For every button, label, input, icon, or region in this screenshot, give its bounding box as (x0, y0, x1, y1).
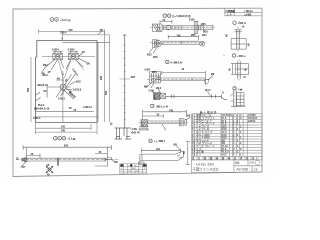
svg-text:Ø27: Ø27 (131, 76, 136, 79)
svg-text:545: 545 (61, 130, 66, 133)
svg-text:図番: 図番 (235, 161, 240, 165)
svg-text:220.4: 220.4 (60, 32, 67, 35)
svg-text:t9: t9 (244, 76, 247, 79)
svg-text:Ø25: Ø25 (152, 71, 157, 74)
svg-text:√40X ω: √40X ω (237, 55, 245, 58)
svg-text:印: 印 (252, 156, 255, 160)
svg-text:千葉ウインチ(仕): 千葉ウインチ(仕) (193, 166, 219, 171)
svg-text:乙48: 乙48 (249, 161, 255, 165)
svg-text:Ø45: Ø45 (153, 56, 158, 59)
svg-text:25: 25 (47, 164, 50, 167)
svg-text:承: 承 (240, 156, 243, 160)
svg-text:Ø25: Ø25 (201, 23, 206, 26)
svg-text:2-Ø13.8: 2-Ø13.8 (71, 68, 79, 77)
svg-text:Ø4.2: Ø4.2 (205, 89, 211, 92)
svg-text:ピン: ピン (196, 153, 202, 157)
svg-text:Ø8(±0.1)ℓ: Ø8(±0.1)ℓ (38, 84, 49, 87)
svg-text:25: 25 (16, 157, 19, 160)
svg-text:9: 9 (223, 92, 225, 95)
svg-text:認: 認 (246, 156, 249, 160)
svg-text:45°: 45° (22, 166, 26, 169)
svg-text:√400 ㎜: √400 ㎜ (60, 18, 71, 22)
svg-text:審: 審 (227, 156, 231, 160)
svg-text:⊂2485: ⊂2485 (244, 13, 252, 16)
svg-text:Ø4.2: Ø4.2 (156, 87, 162, 90)
svg-text:TN: TN (143, 165, 146, 167)
svg-text:図: 図 (222, 156, 225, 160)
svg-text:M8: M8 (144, 86, 148, 89)
svg-text:穴明図番: 穴明図番 (225, 9, 235, 13)
svg-text:検: 検 (216, 156, 219, 160)
svg-text:乙B: 乙B (254, 167, 258, 171)
svg-text:計: 計 (198, 156, 201, 160)
svg-text:45°: 45° (42, 72, 46, 75)
svg-text:Ø9: Ø9 (211, 73, 215, 76)
svg-text:842: 842 (64, 145, 69, 148)
svg-text:594: 594 (105, 90, 108, 95)
svg-text:40: 40 (245, 68, 248, 71)
svg-text:√1.1 ㎜: √1.1 ㎜ (68, 138, 76, 141)
svg-text:2-Ø24: 2-Ø24 (52, 48, 59, 51)
svg-text:2-Ø9: 2-Ø9 (149, 90, 155, 93)
svg-text:▲B: ▲B (120, 164, 124, 167)
svg-text:292: 292 (100, 75, 103, 80)
svg-text:⑫: ⑫ (110, 122, 113, 126)
svg-text:1 : 4: 1 : 4 (227, 13, 232, 16)
svg-text:594: 594 (27, 87, 30, 92)
svg-text:Ø8: Ø8 (87, 63, 91, 66)
svg-text:査: 査 (234, 156, 237, 160)
svg-text:45°: 45° (100, 29, 104, 32)
svg-text:45°: 45° (64, 78, 69, 83)
svg-text:√M8 (ノ) 4ℓ: √M8 (ノ) 4ℓ (156, 105, 169, 108)
svg-text:2-Ø13: 2-Ø13 (58, 98, 65, 101)
svg-text:6-√M8 3.4ℓ: 6-√M8 3.4ℓ (171, 62, 184, 65)
svg-text:Ø18: Ø18 (203, 30, 208, 33)
svg-text:40: 40 (137, 131, 140, 134)
svg-text:Ø24: Ø24 (43, 64, 48, 67)
svg-text:ノ1814ω: ノ1814ω (243, 10, 253, 13)
svg-text:2: 2 (144, 168, 146, 170)
svg-text:√ (ノM8) 4: √ (ノM8) 4 (154, 140, 166, 143)
svg-text:R2: R2 (44, 90, 48, 93)
svg-text:√ ㎜: √ ㎜ (238, 88, 243, 91)
svg-text:342: 342 (61, 126, 66, 129)
svg-text:152: 152 (156, 148, 161, 151)
svg-text:4: 4 (223, 55, 225, 57)
svg-text:2-Ø9.4: 2-Ø9.4 (33, 117, 41, 120)
svg-text:Ø42: Ø42 (132, 132, 137, 135)
svg-text:45: 45 (248, 43, 251, 46)
svg-text:745: 745 (177, 34, 182, 37)
svg-text:■2503: ■2503 (248, 119, 256, 123)
svg-text:40: 40 (228, 68, 231, 71)
svg-text:Ø13: Ø13 (222, 153, 227, 157)
svg-text:Ø18: Ø18 (76, 81, 81, 84)
svg-text:745: 745 (169, 109, 174, 112)
svg-text:t6: t6 (242, 26, 245, 29)
svg-text:6-Ø9: 6-Ø9 (145, 69, 151, 72)
svg-text:45°: 45° (48, 71, 52, 74)
svg-text:2-Ø24: 2-Ø24 (68, 48, 75, 51)
svg-text:2-Ø13.8: 2-Ø13.8 (73, 88, 82, 91)
svg-text:55: 55 (69, 107, 72, 110)
svg-text:45: 45 (82, 51, 85, 54)
svg-text:2-Ø9: 2-Ø9 (189, 18, 195, 21)
svg-text:2-Ø13.2: 2-Ø13.2 (83, 106, 92, 109)
svg-text:Ø80×Ø4.2×19: Ø80×Ø4.2×19 (34, 108, 50, 111)
svg-text:図: 図 (210, 156, 213, 160)
svg-text:A2-096: A2-096 (237, 168, 249, 172)
svg-text:設: 設 (192, 156, 195, 160)
svg-text:550: 550 (69, 29, 74, 32)
svg-text:40: 40 (182, 68, 185, 71)
svg-text:40: 40 (226, 34, 229, 37)
svg-text:Ø25: Ø25 (147, 54, 152, 57)
svg-text:Ø25: Ø25 (191, 34, 196, 37)
svg-text:Ø12: Ø12 (202, 34, 207, 37)
svg-text:製: 製 (203, 156, 207, 160)
svg-text:L4 ton, 15m: L4 ton, 15m (196, 162, 214, 166)
svg-text:Ø9: Ø9 (115, 161, 119, 164)
